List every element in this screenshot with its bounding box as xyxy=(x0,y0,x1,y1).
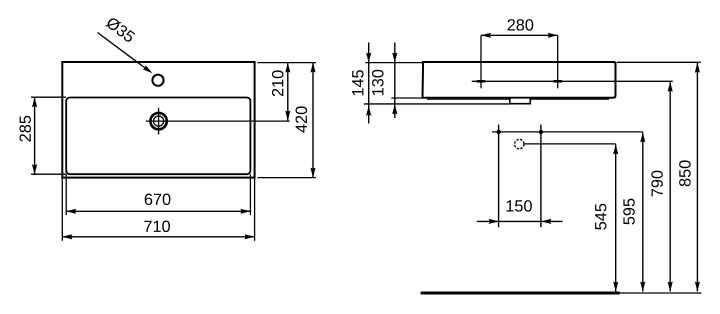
label 285 xyxy=(19,116,31,142)
dimension 790 line xyxy=(669,82,671,292)
top-left extension line xyxy=(365,62,423,64)
top extension for 850 xyxy=(617,61,701,63)
dimension 545 line xyxy=(615,144,617,291)
dimension 280 line xyxy=(481,34,558,36)
label 280 xyxy=(508,19,534,31)
dimension 595 line xyxy=(642,132,644,291)
dimension 145 line xyxy=(368,43,370,124)
floor extension thin xyxy=(619,292,702,294)
label 710 xyxy=(144,221,170,233)
basin inner bowl rectangle xyxy=(66,98,250,175)
drain outer circle xyxy=(150,113,166,129)
faucet hole tick left xyxy=(477,80,486,83)
extension line top for 285 xyxy=(31,96,66,98)
dimension 420 line xyxy=(312,63,314,178)
bottom-left extension line xyxy=(391,97,422,99)
bolt stubs above dots xyxy=(498,125,500,132)
trap centerline to 545 dimension xyxy=(524,143,616,145)
label 150 xyxy=(507,200,532,212)
label 790 xyxy=(651,171,663,197)
dimension 850 line xyxy=(696,63,698,292)
leader line for faucet hole xyxy=(98,33,150,72)
drain inner circle xyxy=(154,116,164,126)
label 545 xyxy=(595,204,606,230)
label 420 xyxy=(296,106,308,132)
drain tab under basin xyxy=(510,98,531,104)
bolt hole dot right xyxy=(539,130,543,134)
label Ø35 xyxy=(105,16,136,43)
faucet hole tick right xyxy=(553,80,562,83)
label 850 xyxy=(679,160,691,186)
dimension 670 line xyxy=(66,210,250,212)
extension line bottom right of left view xyxy=(258,177,317,179)
extension verticals for 280 xyxy=(480,35,482,88)
leader arrowhead xyxy=(143,65,153,73)
faucet hole circle xyxy=(152,75,163,86)
faucet hole centerline xyxy=(472,80,673,82)
bolt hole dot left xyxy=(496,130,500,134)
floor line thick xyxy=(422,291,619,294)
label 595 xyxy=(623,199,635,225)
label 210 xyxy=(272,70,284,96)
dimension 210 line xyxy=(287,63,289,121)
dimension 130 line xyxy=(394,43,396,119)
basin side profile outline xyxy=(423,62,616,98)
label 145 xyxy=(352,70,363,95)
dimension 285 line xyxy=(34,97,36,174)
bolt verticals down to 150 dimension xyxy=(498,132,500,227)
dimension 150 line xyxy=(477,220,563,222)
lip extension line xyxy=(364,103,510,105)
label 670 xyxy=(145,194,171,206)
dashed trap hole circle xyxy=(515,139,524,148)
extension line top right of left view xyxy=(258,62,317,64)
bolt hole line xyxy=(492,131,643,133)
basin outer rectangle xyxy=(62,62,254,178)
label 130 xyxy=(372,70,384,95)
drain horizontal centerline extended right xyxy=(146,120,290,122)
extension verticals below basin xyxy=(61,178,63,241)
extension line bottom for 285 xyxy=(31,173,66,175)
underside thin line xyxy=(427,98,609,100)
dimension 710 line xyxy=(62,236,254,238)
drain vertical centerline xyxy=(158,108,160,135)
